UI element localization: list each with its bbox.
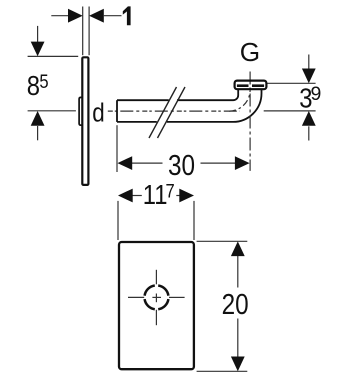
svg-text:9: 9	[311, 83, 322, 105]
svg-text:20: 20	[222, 288, 249, 320]
svg-text:5: 5	[39, 71, 48, 93]
svg-text:G: G	[240, 37, 260, 67]
svg-text:11: 11	[143, 178, 168, 210]
svg-text:7: 7	[166, 180, 175, 202]
svg-text:30: 30	[168, 149, 195, 181]
svg-text:8: 8	[27, 69, 40, 101]
svg-text:d: d	[92, 99, 104, 128]
